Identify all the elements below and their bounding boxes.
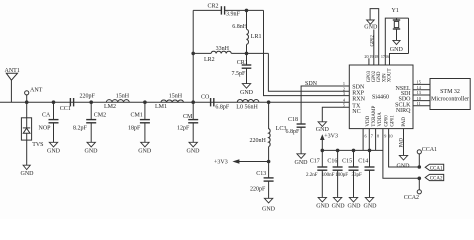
ground (top GND pin) [364,20,378,30]
node CCA2 test point [404,178,422,201]
wire SDN net [301,86,349,124]
svg-text:TVS: TVS [32,142,43,148]
wire GP02 stub [371,30,376,66]
ground (below CM1) [138,142,152,154]
svg-text:1: 1 [343,81,345,86]
svg-text:CCA1: CCA1 [422,147,437,153]
svg-text:GND: GND [316,204,330,210]
svg-text:SDO: SDO [398,96,411,102]
svg-text:7: 7 [371,133,373,138]
svg-text:GND: GND [390,47,404,53]
wire main RF rail [0,101,349,103]
svg-text:CR2: CR2 [208,4,219,10]
wire LR2 row left [193,52,211,54]
svg-text:CC1: CC1 [60,106,71,112]
ground (NC pin) [316,122,330,133]
ground (below C14) [364,197,378,209]
capacitor C16 [322,150,343,197]
node CA junction [52,100,56,104]
svg-text:3.9nF: 3.9nF [226,11,241,17]
svg-text:33nH: 33nH [216,46,230,52]
ground (below CR1) [240,84,254,96]
capacitor C14 [352,150,375,197]
capacitor CM [177,102,198,142]
wire loop top right segment [225,9,264,11]
inductor LM1 [155,94,183,110]
wire GP00 net to CCA2 [383,129,419,179]
svg-text:CCA1: CCA1 [430,167,443,172]
svg-text:GND: GND [47,148,61,154]
svg-text:STM 32: STM 32 [440,89,460,95]
svg-text:GND: GND [187,148,201,154]
svg-text:GP00: GP00 [385,115,390,127]
capacitor CR2 [208,4,241,18]
node CR1 junction [245,52,249,56]
pin numbers left (1-5) [343,81,346,107]
op-amp U2 STM32 microcontroller [430,79,470,110]
svg-text:33pF: 33pF [352,173,363,178]
inductor L0 [236,99,259,110]
svg-text:C17: C17 [310,158,320,164]
inductor LR2 [204,46,231,63]
svg-text:11: 11 [417,101,421,106]
svg-text:NC: NC [352,109,360,115]
antenna ANT1 [5,68,20,102]
wire loop left vertical [192,10,194,102]
wire RXP net (LR2 row to pin 2) [268,53,349,91]
svg-text:CM1: CM1 [131,112,143,118]
wire loop top (to CR2) [193,9,221,11]
svg-text:CA: CA [42,112,51,118]
node C13 junction [267,160,271,164]
svg-text:LM1: LM1 [155,104,167,110]
connector CCA1 [425,164,444,171]
svg-text:220pF: 220pF [250,186,266,192]
node LR2 left junction [191,52,195,56]
node top loop junction [245,9,249,13]
svg-text:GND: GND [295,160,309,166]
svg-text:GND: GND [397,164,411,170]
svg-text:LM2: LM2 [104,104,116,110]
svg-text:8: 8 [377,133,379,138]
ground (below CM2) [85,142,99,154]
svg-text:220nH: 220nH [250,138,267,144]
svg-text:GND: GND [332,204,346,210]
capacitor C13 [250,162,274,199]
wire XIN to crystal [385,18,408,65]
capacitor CA [39,102,59,142]
wire crystal loop right [408,18,410,53]
ground (below TVS) [21,165,35,177]
wire +3V3 feed (left arrow) [214,159,269,165]
svg-text:CM2: CM2 [94,112,106,118]
capacitor C15 [335,150,358,197]
svg-text:6.8nH: 6.8nH [232,24,248,30]
pin numbers top (20-16) [364,54,389,59]
svg-text:NOP: NOP [39,125,52,131]
ground (below C13) [262,198,276,212]
svg-text:15: 15 [417,80,421,85]
capacitor C17 [306,150,327,197]
svg-text:5: 5 [343,103,345,108]
svg-text:9: 9 [384,133,386,138]
svg-text:GND: GND [21,171,35,177]
wire LR2 row right [231,52,268,54]
inductor LC3 [250,102,287,161]
node LC3 junction [267,100,271,104]
wire SPI bus to microcontroller [413,84,430,105]
wire GP03 stub [368,58,370,65]
svg-text:CCA2: CCA2 [404,195,419,201]
svg-text:VDDA: VDDA [378,112,383,127]
svg-text:CO: CO [201,94,210,100]
svg-text:GND: GND [85,148,99,154]
svg-text:SDN: SDN [305,81,318,87]
ground (below C18) [295,154,309,166]
svg-text:LC3: LC3 [276,126,287,132]
svg-text:Y1: Y1 [392,8,399,14]
node CM1 junction [143,100,147,104]
svg-text:100nF: 100nF [322,173,335,178]
svg-text:GP01: GP01 [391,115,396,127]
svg-text:18pF: 18pF [128,125,141,131]
capacitor CC1 [60,94,96,112]
svg-text:Microcontroller: Microcontroller [431,96,469,102]
svg-text:7.5pF: 7.5pF [232,71,247,77]
ground (below C16) [332,197,346,209]
svg-text:TXRAMP: TXRAMP [372,106,377,127]
svg-text:VDD: VDD [366,115,371,126]
node CCA1 test point [417,147,437,167]
svg-text:GND: GND [138,148,152,154]
svg-text:13: 13 [417,90,421,95]
svg-text:C13: C13 [256,171,266,177]
svg-text:GND: GND [348,204,362,210]
capacitor CR1 [232,53,252,83]
ground (below CA) [47,142,61,154]
svg-text:XIN: XIN [382,73,387,82]
svg-text:Si4460: Si4460 [372,94,389,100]
svg-text:XOUT: XOUT [388,68,393,82]
capacitor C18 [286,117,306,154]
wire GP01 net to CCA1 [389,129,420,167]
svg-text:L0 56nH: L0 56nH [236,104,258,110]
capacitor CM1 [128,102,150,142]
svg-text:PAD: PAD [402,117,407,127]
svg-text:18: 18 [374,54,378,59]
svg-text:PAD: PAD [400,138,405,148]
svg-text:GND: GND [377,71,382,82]
svg-text:C16: C16 [327,158,337,164]
crystal Y1 [392,8,401,41]
svg-text:6.8pF: 6.8pF [286,129,301,135]
svg-text:15nH: 15nH [169,94,183,100]
ground (below C15) [348,197,362,209]
svg-text:C14: C14 [358,158,368,164]
node CCA1 junction [418,165,422,169]
ground (below C17) [316,197,330,209]
node CM2 junction [89,100,93,104]
svg-text:CR1: CR1 [237,60,248,66]
svg-text:C15: C15 [342,158,352,164]
wire RXN net (loop top to pin 3) [264,10,350,95]
wire +3V3 rail [322,149,383,151]
svg-text:12pF: 12pF [177,125,190,131]
transistor TVS (TVS diode) [21,102,43,165]
svg-text:LR2: LR2 [204,57,215,63]
power +3V3 (vertical arrow) [320,133,338,150]
ground (PAD pin) [397,155,411,169]
svg-text:NIRQ: NIRQ [396,108,411,114]
svg-text:+3V3: +3V3 [324,133,338,139]
svg-text:CM: CM [183,114,193,120]
svg-text:GND: GND [240,90,254,96]
svg-text:LR1: LR1 [251,34,262,40]
svg-text:100pF: 100pF [335,173,348,178]
capacitor CM2 [73,102,106,142]
inductor LM2 [104,94,130,110]
svg-text:CCA2: CCA2 [430,177,443,182]
node CCA2 junction [418,177,422,181]
svg-text:GND: GND [364,204,378,210]
svg-text:GND: GND [364,24,378,30]
svg-text:6.8pF: 6.8pF [215,104,230,110]
svg-text:GND: GND [316,127,330,133]
svg-text:+3V3: +3V3 [214,159,228,165]
svg-text:15nH: 15nH [116,94,130,100]
svg-text:19: 19 [369,54,373,59]
wire GND pin route (top) [370,9,379,65]
wire XOUT to crystal loop [390,54,409,66]
ground (below crystal Y1) [390,40,404,53]
svg-text:8.2pF: 8.2pF [73,125,88,131]
wire VDDA stub [375,129,377,151]
svg-text:ANT: ANT [30,88,43,94]
inductor LR1 [232,10,261,53]
svg-text:GP02: GP02 [371,35,376,47]
node CM junction / matching node [191,100,195,104]
wire TXRAMP stub [368,129,370,151]
svg-text:GND: GND [262,207,276,213]
svg-text:6: 6 [365,133,367,138]
svg-text:SDN: SDN [352,85,365,91]
wire NC net to ground [322,107,349,122]
wire PAD net [400,129,405,156]
ground (below CM) [187,142,201,154]
wire VDD stub [362,129,364,151]
svg-text:220pF: 220pF [80,94,96,100]
node ANT [25,88,43,104]
svg-text:RXN: RXN [352,96,365,102]
svg-text:C18: C18 [288,117,298,123]
capacitor CO [201,94,230,110]
pin numbers bottom (6-10) [365,133,393,138]
op-amp U1 Si4460 transceiver [349,65,413,129]
svg-text:3: 3 [343,91,345,96]
svg-text:2.2nF: 2.2nF [306,173,318,178]
pin numbers right (15,14,13,10,11) [417,80,422,106]
svg-text:20: 20 [364,54,368,59]
connector CCA2 [425,174,444,181]
